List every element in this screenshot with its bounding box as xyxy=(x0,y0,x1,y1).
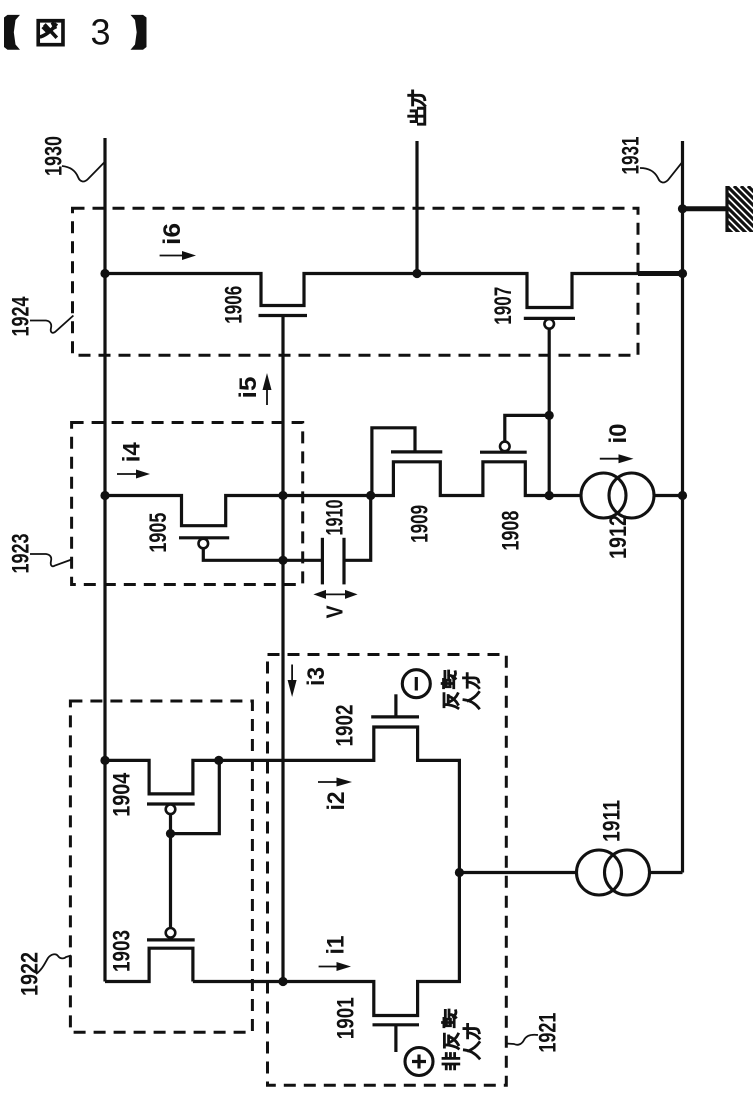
junction dot: node at 1906 gate line and second-stage rail xyxy=(278,491,287,500)
junction dot: left rail / 1905 drain xyxy=(100,491,109,500)
transistor 1907 gate bar xyxy=(524,317,575,320)
ground chassis hatch xyxy=(713,186,753,288)
wire: 1907 gate line down to bias node xyxy=(548,329,551,496)
wire: 1909 gate jog to its drain node xyxy=(372,428,415,496)
current arrow i6 xyxy=(160,251,196,260)
svg-text:1911: 1911 xyxy=(598,800,625,842)
dashed block 1924 (output stage) xyxy=(73,208,639,355)
svg-text:3: 3 xyxy=(90,12,110,53)
label 反転入力 (inverting input) xyxy=(442,671,479,708)
inverting input terminal (minus circle) xyxy=(402,670,430,698)
current arrow i5 (up) xyxy=(263,373,272,405)
transistor 1902 gate bar xyxy=(371,715,419,718)
svg-text:i3: i3 xyxy=(303,667,330,686)
svg-text:i4: i4 xyxy=(119,442,146,463)
wire: 1911 to tail node xyxy=(459,871,576,874)
wire: 1904 to 1903 gate chain xyxy=(169,834,172,928)
capacitor 1910 plates xyxy=(322,538,344,585)
leader to 1930 xyxy=(62,162,105,182)
wire: second-stage rail with 1905, 1909, 1908 steps xyxy=(105,462,581,526)
svg-text:1930: 1930 xyxy=(40,136,67,176)
svg-text:i0: i0 xyxy=(605,424,632,444)
label 出力 (output) xyxy=(409,91,425,124)
svg-text:1902: 1902 xyxy=(331,705,358,747)
junction dot: left rail / 1904 source xyxy=(100,756,109,765)
leader to 1923 xyxy=(30,554,72,566)
junction dot: 1908 drain / 1912 xyxy=(545,491,554,500)
transistor 1908 gate bar xyxy=(480,451,527,454)
leader to 1922 xyxy=(36,954,71,974)
transistor 1905 gate bubble xyxy=(199,539,209,549)
figure title 【図3】 xyxy=(4,12,147,53)
svg-text:1924: 1924 xyxy=(7,296,34,336)
svg-text:1904: 1904 xyxy=(109,772,136,817)
wire: 1904 gate-drain tie xyxy=(171,760,220,833)
wire: mirror rail with 1904 steps and run to 1902 drain xyxy=(105,727,459,873)
transistor 1909 gate bar xyxy=(391,450,442,453)
output terminal line (出力) xyxy=(415,141,418,274)
svg-text:1910: 1910 xyxy=(322,500,349,536)
junction dot: 1908 gate tie xyxy=(545,411,554,420)
transistor 1906 gate bar xyxy=(259,314,308,317)
wire: ground stub to chassis symbol xyxy=(683,206,728,211)
wire: 1912 to ground rail xyxy=(654,494,683,497)
junction dot: 1905 gate node xyxy=(278,556,287,565)
wire: 1905 gate to node, capacitor left plate lead xyxy=(203,548,322,560)
transistor 1907 gate bubble xyxy=(544,319,554,329)
current source 1911 (overlapping circles) xyxy=(577,850,650,895)
junction dot: output node xyxy=(412,269,421,278)
leader to 1931 xyxy=(640,162,683,183)
current arrow i4 xyxy=(117,470,150,479)
svg-text:1923: 1923 xyxy=(7,534,34,574)
wire: 1901 gate stem xyxy=(394,1025,397,1052)
junction dot: mirror output node xyxy=(278,977,287,986)
wire: thick segment of top rail near ground rail xyxy=(638,271,683,276)
current source 1912 (overlapping circles) xyxy=(581,473,654,518)
transistor 1904 gate bubble xyxy=(166,805,176,815)
svg-text:1909: 1909 xyxy=(407,505,434,543)
svg-text:i1: i1 xyxy=(322,936,349,955)
transistor 1901 gate bar xyxy=(373,1023,420,1026)
ground rail 1931 (right vertical line) xyxy=(681,141,684,873)
svg-text:1901: 1901 xyxy=(333,997,360,1039)
svg-text:i2: i2 xyxy=(323,792,350,811)
current arrow i0 xyxy=(600,454,634,463)
dashed block 1922 (current mirror load) xyxy=(70,701,252,1032)
leader to 1921 xyxy=(507,1035,539,1045)
label 非反転入力 (non-inverting input) xyxy=(443,1010,480,1069)
node: gate line of 1906 / long vertical to mirror output xyxy=(281,316,284,982)
svg-text:V: V xyxy=(322,605,348,619)
wire: top output-stage rail with 1906 and 1907 source/drain steps xyxy=(105,274,683,308)
dashed block 1921 (differential input pair) xyxy=(268,655,507,1086)
junction dot: 1904 drain node xyxy=(214,756,223,765)
wire: capacitor right plate to diode node xyxy=(344,496,371,561)
wire: tail node down to 1901 drain xyxy=(193,873,460,1016)
leader to 1924 xyxy=(30,316,73,333)
transistor 1903 gate bar xyxy=(147,938,195,941)
non-inverting input terminal (plus circle) xyxy=(405,1048,433,1076)
svg-text:1912: 1912 xyxy=(605,515,632,559)
junction dot: right rail / top wire xyxy=(678,269,687,278)
svg-text:1907: 1907 xyxy=(490,287,517,325)
wire: 1902 gate stem xyxy=(394,694,397,717)
transistor 1904 gate bar xyxy=(147,802,195,805)
junction dot: left rail / 1906 drain xyxy=(100,269,109,278)
current arrow i1 xyxy=(319,962,351,971)
transistor 1903 gate bubble xyxy=(166,928,176,938)
wire: 1908 gate jog xyxy=(505,415,549,441)
svg-text:i6: i6 xyxy=(159,223,186,245)
transistor 1905 gate bar xyxy=(179,536,229,539)
junction dot: ground stub xyxy=(678,204,687,213)
junction dot: right rail / 1912 xyxy=(678,491,687,500)
junction dot: diode node 1909 xyxy=(366,491,375,500)
svg-text:1905: 1905 xyxy=(145,513,172,553)
voltage arrow V (double headed) xyxy=(313,590,357,599)
svg-text:1903: 1903 xyxy=(109,930,136,972)
current arrow i2 xyxy=(318,778,352,787)
dashed block 1923 (second stage) xyxy=(72,423,303,585)
current arrow i3 (down) xyxy=(288,665,297,698)
svg-text:1908: 1908 xyxy=(498,511,525,551)
wire: 1911 to ground rail xyxy=(650,871,683,874)
junction dot: tail node / 1911 xyxy=(455,868,464,877)
svg-text:1922: 1922 xyxy=(16,952,43,996)
svg-text:i5: i5 xyxy=(235,377,262,399)
transistor 1908 gate bubble xyxy=(500,442,510,452)
wire: bottom rail with 1903 steps xyxy=(105,948,193,981)
power rail 1930 (left vertical supply line) xyxy=(103,138,106,982)
svg-text:1906: 1906 xyxy=(221,286,248,324)
svg-text:1931: 1931 xyxy=(617,137,644,175)
junction dot: 1904 gate-drain tie xyxy=(166,829,175,838)
svg-text:1921: 1921 xyxy=(534,1013,561,1053)
